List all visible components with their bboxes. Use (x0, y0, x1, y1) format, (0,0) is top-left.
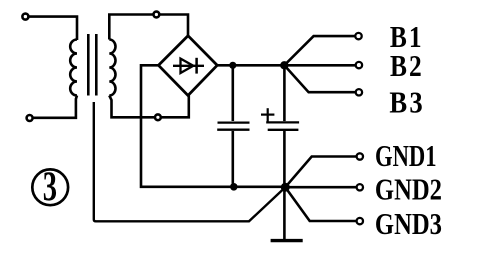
svg-text:3: 3 (43, 163, 57, 210)
svg-text:B2: B2 (390, 50, 424, 84)
svg-text:GND1: GND1 (375, 138, 437, 172)
svg-text:GND2: GND2 (375, 173, 442, 207)
svg-text:B3: B3 (389, 86, 424, 120)
svg-text:GND3: GND3 (375, 207, 442, 241)
